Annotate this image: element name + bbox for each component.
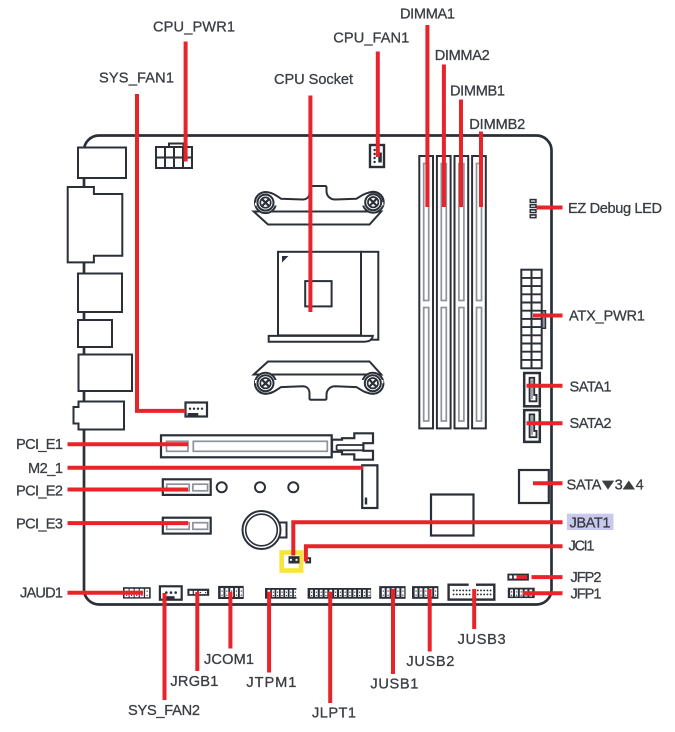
svg-text:SATA1: SATA1 xyxy=(570,380,612,396)
wire JTPM1 xyxy=(267,592,271,673)
svg-text:JFP1: JFP1 xyxy=(571,587,602,603)
connector SYS_FAN2 xyxy=(160,586,182,599)
svg-text:SYS_FAN2: SYS_FAN2 xyxy=(128,703,200,719)
connector SATA2 xyxy=(524,410,540,442)
wire CPU Socket xyxy=(308,96,312,313)
io port 6 xyxy=(74,402,125,430)
svg-text:M2_1: M2_1 xyxy=(28,461,63,477)
wire JCOM1 xyxy=(228,592,232,649)
battery xyxy=(243,511,281,549)
wire JFP2 xyxy=(532,575,563,579)
connector JUSB3 xyxy=(449,583,495,600)
svg-text:EZ Debug LED: EZ Debug LED xyxy=(568,201,662,217)
wire DIMMA1 xyxy=(425,25,429,207)
io port 5 xyxy=(79,355,133,392)
center square xyxy=(305,281,331,306)
connector SYS_FAN1 xyxy=(186,403,208,417)
battery holder tab xyxy=(278,523,287,538)
header JTPM1 xyxy=(265,588,297,599)
svg-text:DIMMA1: DIMMA1 xyxy=(400,6,455,22)
wire DIMMB2 xyxy=(479,132,483,208)
svg-text:ATX_PWR1: ATX_PWR1 xyxy=(569,309,645,325)
wire ATX_PWR1 xyxy=(533,314,563,318)
mounting hole 3 xyxy=(288,482,298,492)
mounting hole 1 xyxy=(217,482,227,492)
wire JCI1 xyxy=(306,546,563,561)
wire SATA1 xyxy=(527,384,563,388)
svg-text:SATA2: SATA2 xyxy=(570,416,612,432)
wire SYS_FAN1 xyxy=(137,94,186,411)
wire JBAT1 xyxy=(293,522,562,555)
M.2 slot M2_1 xyxy=(362,465,377,508)
chipset box xyxy=(431,495,474,536)
mounting hole 2 xyxy=(255,482,265,492)
wire JUSB2 xyxy=(428,589,432,652)
io port 4 xyxy=(78,320,112,347)
svg-text:3: 3 xyxy=(615,477,623,493)
wire CPU_FAN1 xyxy=(376,52,380,158)
PCI_E1 latch xyxy=(332,433,373,459)
svg-text:JRGB1: JRGB1 xyxy=(170,674,218,690)
screw left xyxy=(258,375,274,391)
pin1 marker xyxy=(282,256,289,263)
svg-text:PCI_E1: PCI_E1 xyxy=(16,437,63,453)
wire JUSB3 xyxy=(472,589,476,629)
screw left xyxy=(258,195,274,211)
DIMM slot 1 xyxy=(419,156,433,428)
wire M2_1 xyxy=(68,466,364,470)
wire PCI_E3 xyxy=(68,521,189,525)
svg-text:JUSB1: JUSB1 xyxy=(370,677,418,693)
svg-text:JUSB3: JUSB3 xyxy=(458,632,506,648)
io port 2 xyxy=(68,187,123,262)
wire EZ Debug LED xyxy=(537,206,563,210)
svg-text:JTPM1: JTPM1 xyxy=(246,675,296,691)
screw right xyxy=(365,194,381,210)
svg-text:PCI_E3: PCI_E3 xyxy=(16,516,63,532)
connector CPU_FAN1 xyxy=(370,145,384,167)
slot PCI_E2 xyxy=(163,479,211,495)
header JCOM1 xyxy=(218,586,244,599)
wire JUSB1 xyxy=(391,589,395,674)
wire DIMMA2 xyxy=(442,65,446,208)
svg-text:DIMMA2: DIMMA2 xyxy=(435,48,490,64)
svg-text:JAUD1: JAUD1 xyxy=(20,586,63,602)
wire SATA2 xyxy=(527,421,563,425)
header JRGB1 xyxy=(187,589,209,596)
io port 1 xyxy=(78,148,126,179)
socket bottom bracket xyxy=(254,362,384,400)
yellow highlight box JBAT1 xyxy=(282,553,301,571)
svg-text:JUSB2: JUSB2 xyxy=(406,654,454,670)
svg-text:JCI1: JCI1 xyxy=(569,538,595,554)
svg-text:CPU_PWR1: CPU_PWR1 xyxy=(153,20,235,36)
DIMM slot 4 xyxy=(472,156,486,428)
wire SYS_FAN2 xyxy=(163,593,167,700)
slot PCI_E3 xyxy=(163,518,211,534)
svg-text:CPU_FAN1: CPU_FAN1 xyxy=(333,31,409,47)
connector SATA1 xyxy=(524,373,540,406)
wire PCI_E2 xyxy=(68,488,189,492)
svg-text:DIMMB2: DIMMB2 xyxy=(469,117,525,133)
header JLPT1 xyxy=(308,588,372,599)
svg-text:JFP2: JFP2 xyxy=(571,570,602,586)
wire DIMMB1 xyxy=(459,100,463,208)
wire JLPT1 xyxy=(328,592,332,703)
wire SATA3 4 xyxy=(533,481,563,485)
DIMM slot 3 xyxy=(455,156,469,428)
wire CPU_PWR1 xyxy=(184,42,188,162)
screw right xyxy=(365,375,381,391)
connector ATX_PWR1 xyxy=(521,270,545,369)
svg-text:DIMMB1: DIMMB1 xyxy=(450,84,505,100)
bottom strip xyxy=(269,336,373,342)
io port 3 xyxy=(78,274,122,313)
connector CPU_PWR1 xyxy=(156,144,192,169)
svg-text:4: 4 xyxy=(636,477,644,493)
EZ Debug LED component xyxy=(530,199,537,219)
header JFP2 xyxy=(507,574,529,581)
svg-text:SYS_FAN1: SYS_FAN1 xyxy=(99,71,174,87)
header JFP1 xyxy=(508,588,535,598)
slot PCI_E1 xyxy=(161,433,373,459)
DIMM slot 2 xyxy=(437,156,451,428)
wire JAUD1 xyxy=(68,591,144,595)
svg-text:JLPT1: JLPT1 xyxy=(312,705,356,721)
svg-text:JBAT1: JBAT1 xyxy=(570,515,611,531)
svg-text:JCOM1: JCOM1 xyxy=(204,652,254,668)
cpu socket square xyxy=(269,252,379,342)
jumper JBAT1 xyxy=(289,556,300,563)
wire PCI_E1 xyxy=(68,442,189,446)
pin JCI1 xyxy=(305,557,311,563)
wire JRGB1 xyxy=(195,592,199,671)
board outline xyxy=(84,136,552,605)
label highlight JBAT1 xyxy=(567,514,614,530)
svg-text:PCI_E2: PCI_E2 xyxy=(16,484,63,500)
SATA 3 4 box xyxy=(519,470,549,503)
header JUSB1 xyxy=(379,586,405,599)
header JUSB2 xyxy=(412,586,438,599)
header JAUD1 xyxy=(123,587,151,598)
svg-text:SATA: SATA xyxy=(567,477,602,493)
wire JFP1 xyxy=(523,591,563,595)
svg-text:CPU Socket: CPU Socket xyxy=(274,72,353,88)
socket top bracket xyxy=(254,186,384,225)
